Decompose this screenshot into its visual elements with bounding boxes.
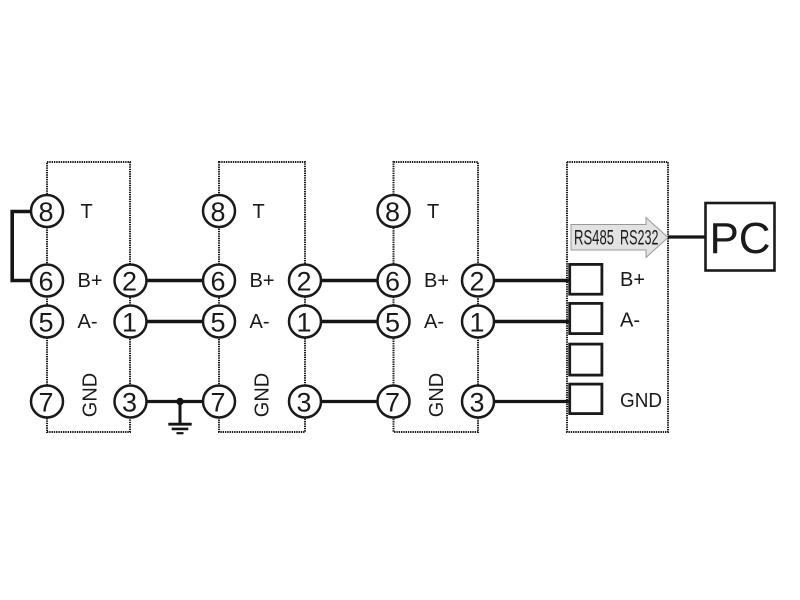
svg-text:T: T xyxy=(427,201,439,223)
wire B+ device1 pin2 to device2 pin6 xyxy=(131,279,220,282)
svg-text:PC: PC xyxy=(709,214,770,263)
svg-text:B+: B+ xyxy=(620,269,645,291)
svg-text:3: 3 xyxy=(296,388,311,418)
svg-text:8: 8 xyxy=(210,197,225,227)
wire B+ device2 pin2 to device3 pin6 xyxy=(305,279,394,282)
terminal 7 device 1 xyxy=(31,386,63,418)
svg-text:8: 8 xyxy=(385,197,400,227)
svg-text:B+: B+ xyxy=(250,270,275,292)
terminal 6 device 1 xyxy=(31,265,63,297)
svg-text:A-: A- xyxy=(620,310,640,332)
PC box xyxy=(706,203,775,271)
svg-text:1: 1 xyxy=(122,308,137,338)
terminal 2 device 1 xyxy=(115,265,147,297)
svg-text:A-: A- xyxy=(250,311,270,333)
terminal 7 device 3 xyxy=(378,386,410,418)
terminal 5 device 3 xyxy=(378,306,410,338)
terminal 5 device 2 xyxy=(203,306,235,338)
converter terminal A- xyxy=(570,303,602,333)
svg-text:A-: A- xyxy=(78,311,98,333)
wire B+ device3 pin2 to converter B+ xyxy=(478,279,570,282)
svg-text:1: 1 xyxy=(469,308,484,338)
svg-text:5: 5 xyxy=(38,308,53,338)
label GND device 2 (rotated) xyxy=(252,373,274,417)
terminal 3 device 3 xyxy=(462,386,494,418)
wire converter to PC xyxy=(668,235,706,238)
label GND device 3 (rotated) xyxy=(426,373,448,417)
terminal 1 device 3 xyxy=(462,306,494,338)
converter terminal GND xyxy=(570,384,602,414)
wire GND device1 pin3 to device2 pin7 xyxy=(131,400,220,403)
svg-text:GND: GND xyxy=(620,390,662,412)
svg-text:RS485: RS485 xyxy=(574,227,614,250)
svg-text:7: 7 xyxy=(385,388,400,418)
svg-text:RS232: RS232 xyxy=(620,227,659,250)
wire GND device2 pin3 to device3 pin7 xyxy=(305,400,394,403)
terminal 7 device 2 xyxy=(203,386,235,418)
svg-text:3: 3 xyxy=(122,388,137,418)
device 3 dashed enclosure xyxy=(394,162,479,432)
junction on GND wire xyxy=(176,398,183,405)
RS485/RS232 converter dashed enclosure xyxy=(567,162,668,432)
svg-text:A-: A- xyxy=(424,311,444,333)
svg-text:7: 7 xyxy=(210,388,225,418)
arrow RS485 to RS232 xyxy=(571,218,668,258)
wire termination jumper pin8 to pin6 device 1 xyxy=(12,212,31,281)
converter terminal spare xyxy=(570,344,602,375)
svg-text:3: 3 xyxy=(469,388,484,418)
svg-text:2: 2 xyxy=(296,267,311,297)
svg-text:5: 5 xyxy=(210,308,225,338)
terminal 2 device 3 xyxy=(462,265,494,297)
label GND device 1 (rotated) xyxy=(80,373,102,417)
terminal 8 device 3 xyxy=(378,195,410,227)
svg-text:6: 6 xyxy=(385,267,400,297)
converter terminal B+ xyxy=(570,264,602,294)
terminal 8 device 1 xyxy=(31,195,63,227)
svg-text:8: 8 xyxy=(38,197,53,227)
svg-text:7: 7 xyxy=(38,388,53,418)
terminal 1 device 2 xyxy=(289,306,321,338)
svg-text:6: 6 xyxy=(38,267,53,297)
terminal 6 device 2 xyxy=(203,265,235,297)
terminal 2 device 2 xyxy=(289,265,321,297)
svg-text:5: 5 xyxy=(385,308,400,338)
wire A- device3 pin1 to converter A- xyxy=(478,320,570,323)
wire GND device3 pin3 to converter GND xyxy=(478,400,570,403)
ground xyxy=(168,403,191,433)
svg-text:T: T xyxy=(253,201,265,223)
wire A- device1 pin1 to device2 pin5 xyxy=(131,320,220,323)
svg-text:2: 2 xyxy=(122,267,137,297)
svg-text:2: 2 xyxy=(469,267,484,297)
terminal 1 device 1 xyxy=(115,306,147,338)
terminal 5 device 1 xyxy=(31,306,63,338)
terminal 3 device 1 xyxy=(115,386,147,418)
svg-text:B+: B+ xyxy=(424,270,449,292)
terminal 3 device 2 xyxy=(289,386,321,418)
svg-text:GND: GND xyxy=(252,373,274,417)
svg-text:6: 6 xyxy=(210,267,225,297)
device 2 dashed enclosure xyxy=(219,162,305,432)
svg-text:T: T xyxy=(81,201,93,223)
wire A- device2 pin1 to device3 pin5 xyxy=(305,320,394,323)
device 1 dashed enclosure xyxy=(47,162,130,432)
svg-text:GND: GND xyxy=(426,373,448,417)
terminal 8 device 2 xyxy=(203,195,235,227)
terminal 6 device 3 xyxy=(378,265,410,297)
svg-text:GND: GND xyxy=(80,373,102,417)
svg-text:B+: B+ xyxy=(78,270,103,292)
svg-text:1: 1 xyxy=(296,308,311,338)
